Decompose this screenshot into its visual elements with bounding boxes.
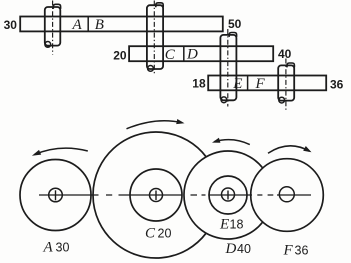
svg-text:B: B bbox=[95, 17, 104, 33]
svg-text:A: A bbox=[43, 240, 54, 256]
shaft 4 bottom cap bbox=[279, 97, 285, 103]
mesh divider C|D bbox=[183, 46, 185, 61]
shaft 4 top cap bbox=[287, 63, 294, 67]
gear circle B (clipped by D) bbox=[93, 132, 206, 258]
gear bar E-F (gears E and F edge view) bbox=[208, 76, 326, 91]
shaft 2 bottom cap bbox=[148, 66, 154, 72]
shaft 1 (gear A shaft) bbox=[45, 7, 61, 46]
hub B/C tick bbox=[155, 191, 157, 201]
shaft 1 top cap bbox=[53, 4, 60, 9]
shaft 3 bottom cap bbox=[221, 97, 227, 103]
shaft 3 (gears D,E shaft) bbox=[220, 35, 236, 100]
shaft 3 centerline bbox=[227, 29, 229, 107]
rotation arrow F bbox=[268, 146, 310, 153]
svg-text:30: 30 bbox=[56, 241, 70, 255]
svg-text:18: 18 bbox=[192, 76, 206, 90]
svg-text:20: 20 bbox=[158, 227, 172, 241]
svg-text:40: 40 bbox=[237, 242, 251, 256]
gear bar A-B (gears A and B edge view) bbox=[20, 17, 223, 32]
gear circle F bbox=[251, 159, 324, 232]
hub D/E tick bbox=[227, 191, 229, 200]
shaft 4 centerline bbox=[285, 59, 287, 111]
rotation arrow D bbox=[215, 140, 250, 145]
svg-text:20: 20 bbox=[113, 49, 127, 63]
svg-text:F: F bbox=[283, 243, 294, 259]
shaft 1 centerline bbox=[52, 1, 54, 55]
gear circle E bbox=[209, 176, 247, 214]
svg-text:C: C bbox=[145, 226, 156, 242]
shaft 2 centerline bbox=[153, 1, 155, 76]
shaft 1 bottom cap bbox=[45, 42, 51, 48]
svg-text:40: 40 bbox=[278, 47, 292, 61]
gear circle A bbox=[20, 160, 91, 231]
svg-text:E: E bbox=[232, 76, 242, 92]
hub A tick bbox=[55, 190, 57, 200]
svg-text:18: 18 bbox=[230, 218, 244, 232]
gear circle D (clipped by F) bbox=[184, 151, 263, 239]
hub D/E bbox=[222, 188, 235, 201]
main horizontal centerline bbox=[39, 194, 311, 196]
svg-text:C: C bbox=[165, 47, 176, 63]
rotation arrow A bbox=[35, 148, 88, 154]
gear bar C-D (gears C and D edge view) bbox=[129, 46, 273, 61]
svg-text:E: E bbox=[219, 217, 229, 233]
gear circle C bbox=[130, 169, 182, 221]
hub A bbox=[49, 188, 63, 202]
arrowhead B bbox=[176, 119, 184, 124]
shaft 2 top cap bbox=[156, 3, 163, 7]
hub F bbox=[279, 187, 294, 202]
arrowhead F bbox=[303, 146, 311, 152]
arrowhead A bbox=[32, 150, 41, 156]
svg-text:30: 30 bbox=[4, 18, 18, 32]
svg-text:50: 50 bbox=[228, 17, 242, 31]
svg-text:F: F bbox=[255, 76, 266, 92]
svg-text:A: A bbox=[72, 17, 83, 33]
mesh divider A|B bbox=[87, 17, 89, 32]
svg-text:36: 36 bbox=[330, 77, 344, 91]
svg-text:D: D bbox=[186, 46, 198, 62]
rotation arrow B bbox=[127, 121, 183, 129]
arrowhead D bbox=[212, 138, 220, 143]
shaft 2 (gears B,C shaft) bbox=[147, 5, 163, 69]
svg-text:D: D bbox=[225, 241, 237, 257]
svg-text:36: 36 bbox=[295, 244, 309, 258]
shaft 4 (gear F shaft) bbox=[278, 65, 294, 100]
mesh divider E|F bbox=[247, 76, 249, 91]
hub B/C bbox=[150, 189, 163, 202]
shaft 3 top cap bbox=[229, 33, 236, 37]
